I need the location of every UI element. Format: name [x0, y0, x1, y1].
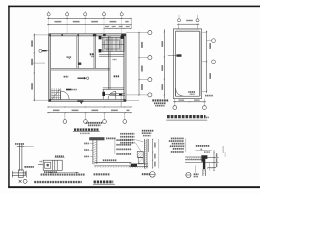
detailE roof slab hatched	[185, 157, 206, 162]
faint margin speck	[223, 146, 226, 157]
plan2 side note text block	[152, 99, 168, 106]
plan1 entrance threshold mark	[77, 100, 83, 104]
plan1 stairwell	[102, 37, 124, 51]
plan1 outer walls	[49, 34, 126, 102]
plan1 top second dimension row right	[103, 18, 131, 28]
detailA detail bubble	[23, 179, 27, 183]
detailE callout block	[169, 138, 186, 153]
plan2 right dimension numbers	[209, 43, 211, 79]
plan2 right dimension line	[206, 31, 207, 93]
plan1 top dimension line B	[47, 24, 132, 25]
plan1 room label b	[90, 53, 94, 57]
plan1 wing label upper faint	[113, 59, 117, 60]
plan2 left dimension numbers	[162, 41, 164, 90]
plan1 lower room arrow mark with text	[66, 89, 77, 91]
plan1 right dimension line	[126, 32, 140, 101]
plan1 door arc bottom-right	[108, 91, 116, 99]
plan1 bottom dimension numbers	[53, 110, 130, 112]
plan1 wing partition lowest with column	[110, 93, 125, 107]
detailE detail bubble	[186, 172, 191, 177]
caption row2	[34, 181, 81, 183]
plan1 top dimension line A	[47, 18, 132, 19]
detailC cap label	[106, 138, 116, 140]
detailB body	[43, 160, 62, 170]
detailD detail bubble	[150, 172, 156, 178]
plan1 wing partition lower	[103, 88, 124, 90]
caption row1 left	[41, 174, 85, 176]
plan1 right wing wall	[108, 36, 110, 90]
plan2 small note right of bottom wall	[205, 95, 213, 97]
detailC top notes	[86, 122, 102, 126]
detailA side label	[24, 166, 33, 176]
plan1 wing partition upper	[99, 55, 124, 57]
plan2 fixture mark with leader	[168, 54, 182, 57]
detailB bottom label	[44, 171, 57, 173]
plan1 interior wall vertical second	[77, 36, 81, 69]
plan1 room label c	[64, 76, 69, 78]
plan2 top dimension number	[186, 20, 193, 21]
detailB left leader	[38, 164, 43, 165]
plan2 top dimension line	[177, 24, 199, 29]
detailD mid hatched beams	[137, 151, 143, 163]
plan2 door arc	[176, 88, 184, 96]
plan1 room label a	[67, 56, 72, 59]
plan1 title with underline	[73, 128, 100, 134]
plan1 interior wall horizontal	[51, 68, 110, 70]
plan1 bottom dimension line B	[47, 112, 132, 113]
detailA cross bar	[12, 171, 26, 178]
detailD right dimension lines	[152, 139, 159, 169]
plan1 right axis bubbles	[139, 31, 152, 97]
plan1 left axis bubble with leader arrow	[39, 49, 49, 52]
detailA post top label	[15, 143, 24, 145]
plan1 wall piers	[49, 34, 126, 102]
plan2 window ticks right wall	[202, 32, 207, 91]
plan2 bottom axis bubbles	[173, 102, 206, 110]
detailB label with underline	[55, 155, 65, 157]
plan1 lower closet wall and column	[102, 89, 115, 99]
detailE right assembly	[205, 150, 218, 171]
plan2 top axis bubbles	[177, 15, 199, 22]
detailE parapet black step	[201, 155, 207, 169]
plan1 top axis bubbles	[47, 11, 123, 19]
plan1 corner stair grid	[51, 88, 61, 100]
caption row1 dimension arrow line	[49, 172, 79, 173]
detailB upper left faint label	[40, 161, 43, 162]
plan1 bottom axis bubbles	[63, 113, 127, 124]
plan2 left dimension line	[164, 29, 165, 99]
detailE bubble label	[194, 173, 199, 177]
detailA cross mark	[19, 180, 22, 183]
detailC left ticks and labels	[84, 143, 93, 158]
plan2 title with underline	[166, 115, 208, 120]
plan1 axis stems to wall	[49, 18, 122, 33]
plan1 stair columns	[99, 36, 124, 53]
detailA flag post	[17, 143, 34, 171]
detailC right callout block	[115, 139, 131, 155]
detailC wall with hatch	[93, 140, 97, 164]
plan2 bottom dimension line	[173, 99, 206, 103]
detailD bottom slab	[129, 164, 148, 168]
plan1 left dimension line	[31, 34, 49, 102]
detailD wall with hatch	[144, 139, 148, 169]
plan1 top dimension numbers	[55, 21, 129, 23]
plan1 door arc bottom-left	[61, 91, 69, 99]
plan1 bottom dimension line A	[47, 106, 132, 107]
plan2 fixture marks bottom right	[188, 91, 195, 95]
detailC slab label	[103, 159, 117, 161]
plan2 right axis bubbles	[207, 39, 216, 64]
caption section title 2-2 with underline	[93, 181, 115, 185]
plan1 left dimension numbers	[31, 40, 33, 89]
plan2 outer walls	[173, 29, 201, 99]
detailA footing box	[18, 170, 23, 178]
detailD bubble label	[142, 173, 150, 175]
detailC beam cap hatched	[89, 137, 104, 140]
plan1 right dimension numbers	[141, 42, 143, 90]
plan1 interior wall vertical	[94, 36, 96, 69]
detailD left callout block	[120, 133, 143, 152]
detailE wall below with hatch	[196, 166, 206, 177]
detailC floor slab	[94, 163, 131, 168]
plan1 wing room label	[114, 75, 120, 77]
detailD top notes	[142, 130, 154, 137]
sheet border frame	[8, 6, 260, 188]
detailE top right note	[196, 145, 212, 153]
plan1 flow arrow symbol	[78, 77, 89, 80]
caption row1 right	[94, 173, 110, 175]
